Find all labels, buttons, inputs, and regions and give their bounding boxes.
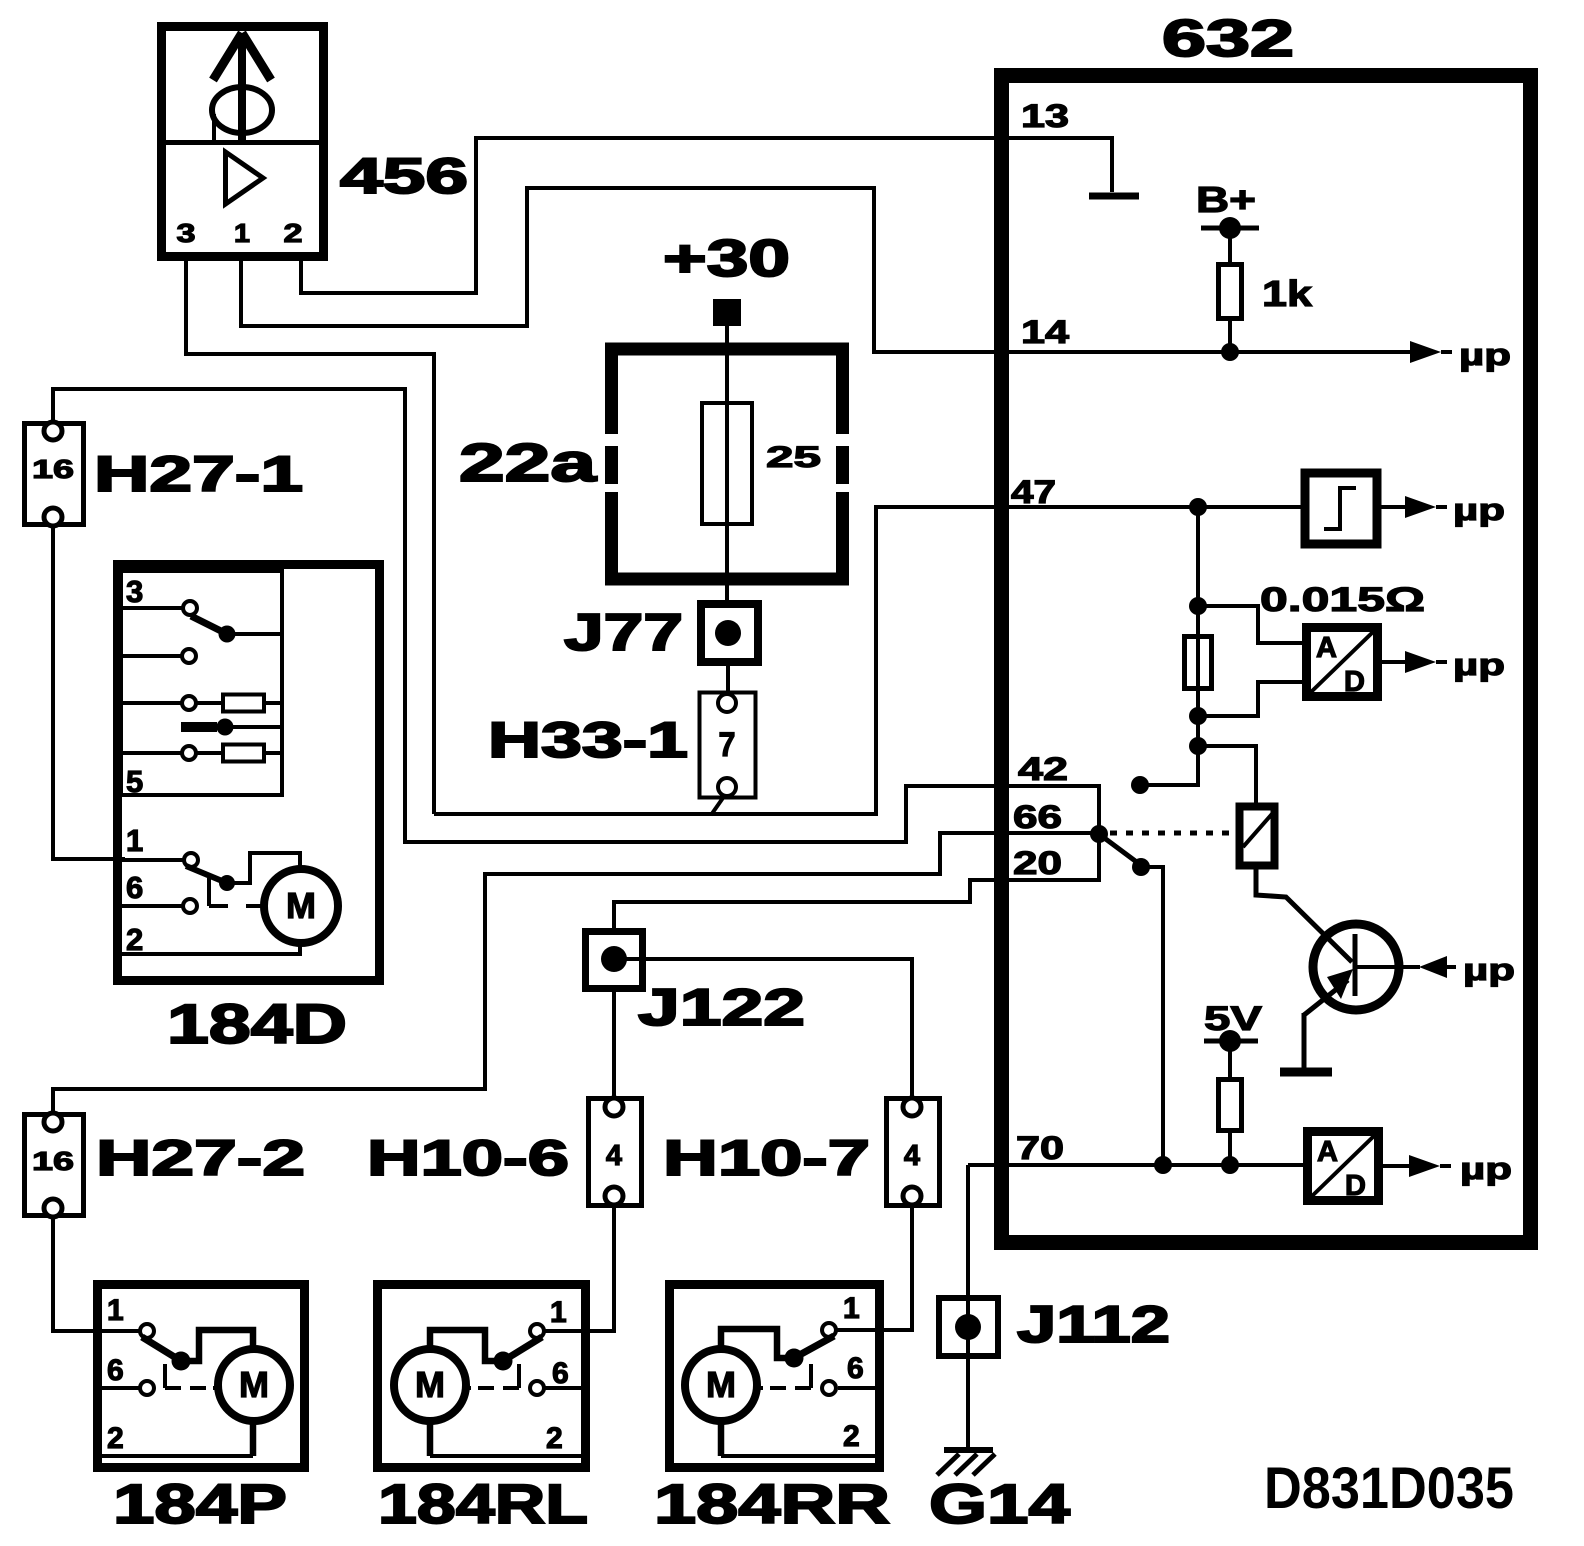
svg-text:B+: B+: [1196, 179, 1256, 220]
184D motor arm dot: [219, 875, 235, 891]
chassis ground G14: [944, 1447, 993, 1453]
184RL pin1 line: [544, 1329, 581, 1333]
184D resistor line a: [121, 701, 181, 705]
H10-6 bottom circle: [605, 1187, 623, 1205]
wire shunt bottom to AD: [1198, 682, 1305, 716]
184D pin3 arm dot: [219, 626, 236, 643]
184RR coupling tick: [809, 1364, 813, 1388]
184D wiper arm: [181, 722, 217, 732]
184P switch arm: [142, 1337, 181, 1361]
184D resistor a wires: [196, 701, 282, 705]
svg-text:66: 66: [1013, 799, 1062, 835]
svg-text:µp: µp: [1453, 647, 1505, 682]
wire +30 to fuse: [725, 326, 729, 403]
svg-text:4: 4: [606, 1140, 622, 1172]
fuse holder bottom edge: [605, 573, 849, 586]
svg-text:1k: 1k: [1262, 273, 1313, 314]
184P pin1 line: [102, 1329, 140, 1333]
184D selector sub-box: [121, 571, 282, 795]
svg-text:M: M: [286, 885, 316, 926]
184RR pin2 line: [721, 1454, 875, 1458]
184RR pin6 line: [838, 1386, 875, 1390]
184D wiper wire: [224, 725, 282, 729]
svg-text:1: 1: [843, 1292, 860, 1325]
184D pin2 line to motor: [121, 943, 300, 954]
switch unit 456 box: [162, 27, 324, 257]
184P arm dot: [172, 1352, 191, 1371]
AD top uP arrow: [1405, 651, 1436, 673]
transistor ground bar: [1280, 1068, 1332, 1077]
fuse wire through element: [725, 403, 729, 603]
H27-1 bottom pin circle: [44, 508, 62, 526]
184D pin6 line: [121, 904, 183, 908]
H33-1 pin7 lead to node y814: [711, 795, 725, 815]
fuse holder left edge dashes: [605, 343, 618, 585]
wire 456 pin2 to 632 pin13: [301, 138, 996, 293]
184D pin3 contact line: [121, 606, 182, 610]
184RL pin6 contact circle: [530, 1381, 544, 1395]
pin47 junction dot: [1189, 498, 1207, 516]
transistor circle: [1313, 924, 1399, 1010]
internal ground bar pin13: [1089, 193, 1139, 200]
fuse holder right edge dashes: [836, 343, 849, 585]
pin14 wire to uP: [1009, 350, 1410, 354]
184D second contact circle: [182, 649, 196, 663]
H27-2 bottom pin circle: [44, 1199, 62, 1217]
184P dashed link: [165, 1386, 219, 1390]
svg-text:H33-1: H33-1: [488, 712, 688, 768]
184P motor M: [218, 1349, 290, 1421]
connector H33-1 body: [700, 693, 756, 798]
svg-text:+30: +30: [663, 230, 790, 288]
184RR pin1 line: [838, 1328, 875, 1332]
svg-text:2: 2: [843, 1420, 860, 1453]
H10-7 bottom circle: [903, 1187, 921, 1205]
motor unit 184RR box: [670, 1285, 880, 1468]
wire pin42 external: [405, 786, 996, 842]
svg-text:70: 70: [1016, 1130, 1064, 1166]
184D pin1 line: [121, 858, 184, 862]
svg-text:184P: 184P: [113, 1472, 287, 1535]
184D resistor circle a: [182, 696, 196, 710]
svg-text:2: 2: [284, 218, 303, 248]
456 ellipse tail: [212, 114, 216, 140]
svg-text:M: M: [415, 1364, 445, 1405]
transistor uP arrow pointing left: [1419, 956, 1447, 978]
184D pin3 switch arm: [191, 616, 227, 634]
H33-1 top circle: [718, 694, 736, 712]
svg-text:D: D: [1345, 1170, 1366, 1202]
resistor 1k: [1219, 265, 1242, 319]
J122 splice dot: [601, 946, 627, 972]
5V terminal dot: [1219, 1030, 1241, 1052]
B+ terminal dot: [1219, 217, 1241, 239]
184P pin2 line: [102, 1454, 253, 1458]
pin13 wire to internal ground: [1009, 138, 1112, 192]
wire H10-6 to 184RL pin1: [544, 1205, 614, 1331]
svg-text:H10-6: H10-6: [367, 1130, 569, 1186]
H10-6 top circle: [605, 1098, 623, 1116]
svg-text:5: 5: [126, 764, 143, 799]
184RL arm dot: [494, 1352, 513, 1371]
184RL pin6 line: [544, 1386, 581, 1390]
svg-text:1: 1: [550, 1296, 567, 1329]
svg-text:A: A: [1317, 1136, 1338, 1168]
relay coil box: [1240, 807, 1275, 866]
svg-text:16: 16: [32, 1146, 74, 1176]
wire pin66 external: [53, 833, 996, 1112]
wire H27-1 top to 632 pin42: [53, 389, 996, 842]
shunt bottom junction dot: [1189, 707, 1207, 725]
184RL motor M: [394, 1349, 466, 1421]
184RR motor M: [685, 1349, 757, 1421]
wire 456 pin1 to 632 pin14: [241, 188, 996, 352]
control switch 184D box: [118, 565, 380, 981]
184RL coupling tick: [517, 1364, 521, 1388]
svg-text:3: 3: [177, 218, 196, 248]
svg-text:J112: J112: [1017, 1296, 1170, 1354]
wire 1k to pin14 node: [1228, 318, 1232, 352]
svg-text:14: 14: [1021, 314, 1069, 350]
transistor base line to uP: [1355, 965, 1420, 969]
svg-text:4: 4: [904, 1140, 920, 1172]
fuse holder 22a dashed box top edge: [605, 343, 849, 356]
relay coil diagonal: [1243, 814, 1272, 847]
456 triangle: [226, 152, 264, 204]
motor unit 184P box: [98, 1285, 305, 1468]
svg-text:456: 456: [340, 148, 468, 204]
svg-text:1: 1: [234, 218, 250, 248]
transistor base bar: [1353, 934, 1358, 996]
wire 5V to resistor: [1228, 1041, 1232, 1080]
wire H10-7 to 184RR pin1: [836, 1205, 912, 1330]
184D dashed link to motor: [209, 904, 264, 908]
H27-1 top pin circle: [44, 422, 62, 440]
184D wiper dot: [217, 719, 234, 736]
wire J122 to H10-7: [614, 959, 912, 1098]
transistor emitter to ground: [1302, 1013, 1307, 1070]
184RR pin1 contact circle: [822, 1323, 836, 1337]
svg-text:6: 6: [552, 1357, 569, 1390]
184D second contact line: [121, 654, 181, 658]
pin70 junction dot resistor: [1221, 1156, 1239, 1174]
svg-text:D: D: [1344, 666, 1365, 698]
svg-text:2: 2: [126, 922, 143, 957]
svg-text:D831D035: D831D035: [1264, 1456, 1514, 1521]
svg-text:3: 3: [126, 574, 143, 609]
184P coupling tick: [163, 1364, 167, 1388]
svg-text:0.015Ω: 0.015Ω: [1260, 581, 1425, 619]
svg-text:632: 632: [1162, 10, 1294, 68]
svg-text:7: 7: [719, 726, 736, 764]
184D arm to motor staircase wire: [227, 853, 300, 883]
schmitt trigger box: [1305, 473, 1377, 544]
wire J77 to H33-1: [726, 662, 730, 693]
svg-text:22a: 22a: [459, 433, 597, 493]
svg-text:H10-7: H10-7: [663, 1130, 870, 1186]
pin70 wire: [968, 1163, 1305, 1167]
schmitt step symbol: [1324, 488, 1356, 529]
H10-7 top circle: [903, 1098, 921, 1116]
184P staircase wire to motor: [181, 1330, 253, 1361]
184D pin1 contact circle: [184, 853, 198, 867]
184D coupling tick: [207, 878, 211, 906]
switch arm 66: [1099, 834, 1142, 866]
wire H27-1 bottom to 184D pin1: [53, 526, 125, 859]
svg-text:6: 6: [126, 870, 143, 905]
svg-text:µp: µp: [1453, 492, 1505, 527]
184D arm dot to bus wire: [227, 632, 282, 636]
184RR dashed link: [757, 1386, 811, 1390]
splice J122 box: [586, 932, 643, 989]
pin 20 label box: [1004, 833, 1099, 880]
wire pin70 through J112 to G14: [966, 1165, 970, 1450]
pin 66 common dot: [1090, 825, 1108, 843]
184RR arm dot: [785, 1349, 804, 1368]
wire junction to relay coil: [1198, 746, 1256, 806]
H27-2 top pin circle: [44, 1113, 62, 1131]
svg-text:6: 6: [847, 1352, 864, 1385]
motor unit 184RL box: [378, 1285, 586, 1468]
svg-text:H27-1: H27-1: [94, 446, 303, 502]
switch arm throw dot: [1132, 858, 1150, 876]
184P pin1 contact circle: [140, 1324, 154, 1338]
184P pin6 line: [102, 1386, 140, 1390]
wire throw to pin70 net: [1141, 867, 1163, 1165]
wire B+ to resistor 1k: [1228, 228, 1232, 265]
ECU box 632: [1002, 76, 1531, 1243]
184D resistor circle b: [182, 746, 196, 760]
wire shunt top to AD: [1198, 606, 1305, 643]
pin47 wire to schmitt: [1009, 505, 1303, 509]
svg-text:184RL: 184RL: [378, 1472, 588, 1535]
connector H10-7 body: [887, 1099, 940, 1206]
pin14 node dot: [1221, 343, 1239, 361]
184RR switch arm: [794, 1336, 834, 1358]
184RL pin2 line: [430, 1454, 581, 1458]
svg-text:42: 42: [1018, 751, 1068, 787]
184RR pin6 contact circle: [822, 1381, 836, 1395]
connector H27-1 body: [25, 424, 84, 525]
AD bottom uP arrow: [1409, 1155, 1440, 1177]
184RL dashed link: [465, 1386, 519, 1390]
svg-text:µp: µp: [1459, 337, 1511, 372]
svg-text:µp: µp: [1463, 952, 1515, 987]
shunt resistor 0.015ohm: [1185, 637, 1212, 689]
184D pin6 contact circle: [183, 899, 197, 913]
wire 456 pin3 to node y814: [186, 261, 434, 814]
svg-text:M: M: [706, 1364, 736, 1405]
184D motor M: [264, 869, 338, 943]
184RL pin1 contact circle: [530, 1324, 544, 1338]
B+ terminal bar: [1201, 226, 1259, 231]
splice J77 box: [701, 604, 758, 662]
AD converter box top: [1307, 628, 1378, 697]
pin70 junction dot switch: [1154, 1156, 1172, 1174]
svg-text:184RR: 184RR: [654, 1472, 890, 1535]
svg-text:1: 1: [107, 1294, 124, 1327]
184RR staircase wire to motor: [721, 1329, 794, 1358]
pin14 uP arrow: [1410, 341, 1441, 363]
wire relay to transistor: [1256, 866, 1352, 962]
svg-text:H27-2: H27-2: [96, 1130, 305, 1186]
J77 splice dot: [715, 620, 741, 646]
J112 splice dot: [955, 1314, 981, 1340]
shunt sense vertical bus: [1140, 507, 1198, 785]
184RL staircase wire to motor: [430, 1330, 503, 1361]
184D resistor b: [223, 745, 264, 762]
svg-text:G14: G14: [929, 1472, 1070, 1535]
svg-text:6: 6: [107, 1354, 124, 1387]
5V terminal bar: [1204, 1039, 1258, 1044]
relay actuation dashed line: [1110, 831, 1239, 836]
184RL switch arm: [503, 1337, 542, 1361]
svg-text:µp: µp: [1460, 1151, 1512, 1186]
svg-text:184D: 184D: [167, 992, 347, 1055]
wire pin20 external: [614, 880, 1009, 932]
svg-text:J77: J77: [564, 604, 683, 662]
456 arrow symbol shaft: [238, 40, 246, 140]
svg-text:1: 1: [126, 823, 143, 858]
fuse element 25: [702, 403, 752, 524]
456 arrow head: [213, 33, 271, 80]
AD converter box bottom: [1308, 1132, 1379, 1201]
184P pin6 contact circle: [140, 1381, 154, 1395]
schmitt uP arrow: [1405, 496, 1436, 518]
184D resistor a: [223, 695, 264, 712]
transistor emitter with arrow: [1304, 980, 1348, 1015]
wire node y814 horizontal (H33-1 pin7 / 632 pin47 feed): [434, 507, 994, 814]
pin 66 label box: [1004, 786, 1099, 833]
splice J112 box: [939, 1298, 998, 1356]
svg-text:16: 16: [32, 454, 74, 484]
svg-text:47: 47: [1011, 474, 1056, 510]
connector H27-2 body: [25, 1115, 84, 1216]
svg-text:2: 2: [107, 1422, 124, 1455]
svg-text:20: 20: [1013, 845, 1062, 881]
5V pull resistor: [1219, 1080, 1242, 1131]
connector H10-6 body: [589, 1099, 642, 1206]
H33-1 bottom circle: [718, 778, 736, 796]
shunt top junction dot: [1189, 597, 1207, 615]
184D motor switch arm: [186, 866, 227, 883]
svg-text:13: 13: [1021, 98, 1069, 134]
wire J122 to H10-6: [612, 987, 616, 1098]
184D resistor b wires: [196, 751, 282, 755]
+30 terminal square: [713, 299, 741, 326]
svg-text:2: 2: [546, 1422, 563, 1455]
svg-text:M: M: [239, 1364, 269, 1405]
wire H27-2 to 184P pin1: [53, 1217, 141, 1331]
relay branch junction dot: [1189, 737, 1207, 755]
wire resistor to pin70 net: [1228, 1130, 1232, 1165]
456 ellipse: [212, 87, 272, 133]
456 internal divider: [166, 140, 323, 145]
svg-text:25: 25: [766, 441, 821, 474]
184D resistor line b: [121, 751, 181, 755]
svg-text:A: A: [1316, 632, 1337, 664]
switch contact dot upper: [1131, 776, 1149, 794]
svg-text:J122: J122: [638, 979, 805, 1037]
184D pin3 contact circle: [183, 601, 197, 615]
